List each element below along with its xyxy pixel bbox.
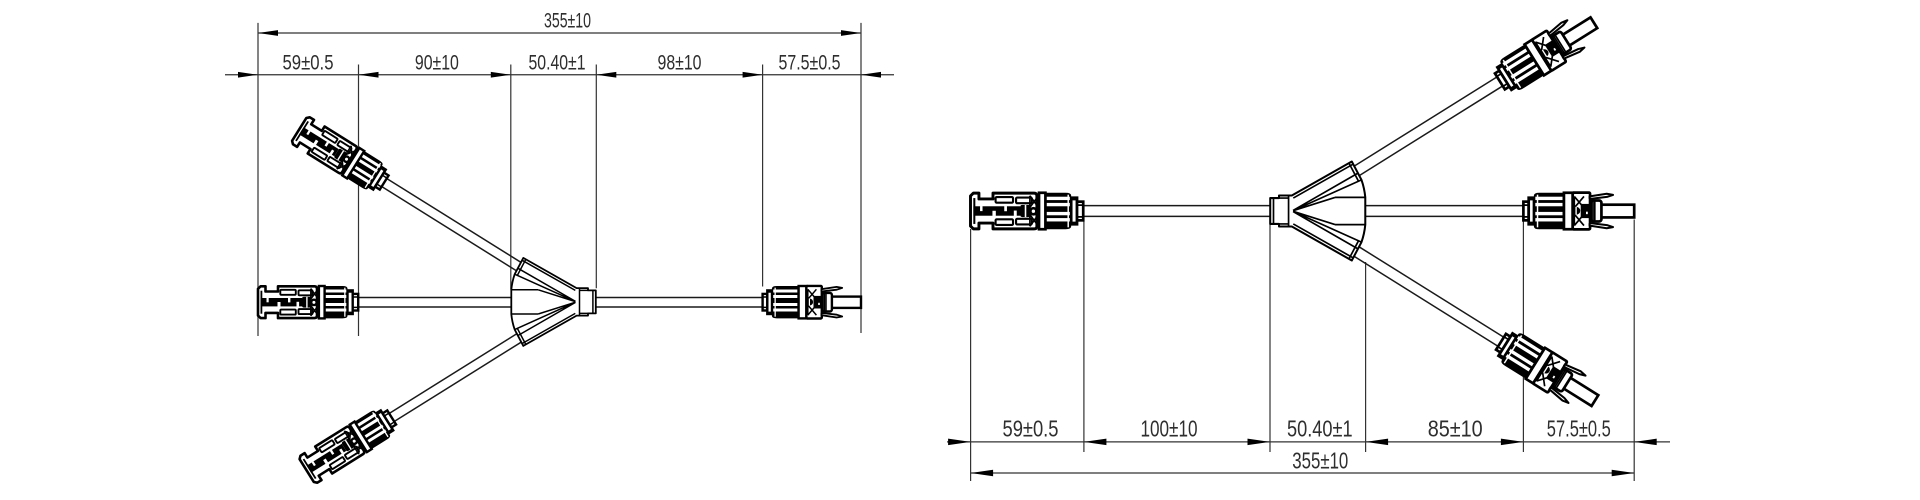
svg-text:59±0.5: 59±0.5 bbox=[283, 52, 334, 75]
svg-text:57.5±0.5: 57.5±0.5 bbox=[1547, 416, 1611, 442]
svg-text:50.40±1: 50.40±1 bbox=[529, 52, 586, 75]
svg-text:85±10: 85±10 bbox=[1428, 416, 1483, 442]
svg-text:50.40±1: 50.40±1 bbox=[1287, 416, 1353, 442]
svg-text:355±10: 355±10 bbox=[1292, 448, 1348, 474]
svg-text:100±10: 100±10 bbox=[1141, 416, 1198, 442]
svg-text:59±0.5: 59±0.5 bbox=[1003, 416, 1059, 442]
svg-text:90±10: 90±10 bbox=[415, 52, 459, 75]
svg-text:98±10: 98±10 bbox=[658, 52, 702, 75]
svg-text:57.5±0.5: 57.5±0.5 bbox=[779, 52, 841, 75]
svg-text:355±10: 355±10 bbox=[544, 10, 591, 33]
